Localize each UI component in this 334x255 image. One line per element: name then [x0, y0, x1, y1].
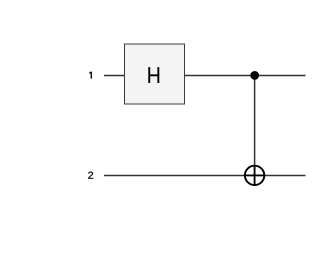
wire 1 (qubit 1 horizontal wire) — [104, 75, 306, 77]
node label 1 — [89, 72, 92, 79]
wire 2 (qubit 2 horizontal wire) — [104, 175, 306, 177]
node label 2 — [88, 172, 93, 179]
CNOT target cross horizontal — [245, 174, 264, 176]
gate H label — [148, 67, 159, 83]
gate H box — [125, 44, 185, 104]
wire CNOT vertical connector — [254, 76, 256, 186]
CNOT control dot — [250, 71, 259, 80]
CNOT target cross vertical — [254, 166, 256, 185]
CNOT target circle — [245, 166, 264, 185]
